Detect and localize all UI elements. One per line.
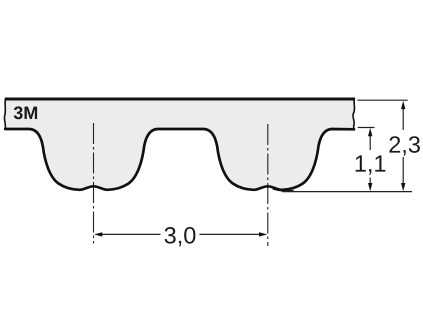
top extension line [357, 99, 407, 101]
arrow up 2,3 [401, 101, 405, 109]
belt tooth profile outline [5, 129, 354, 190]
tooth 2 tip merge into extension line [274, 189, 294, 191]
dimension line 3,0 right segment [200, 233, 262, 235]
label 3,0 [165, 227, 196, 246]
centerline tooth 1 [93, 123, 95, 244]
label 2,3 [389, 136, 419, 155]
arrow down 1,1 [368, 183, 372, 191]
land extension line [358, 127, 375, 129]
arrow right 3,0 [259, 232, 267, 236]
dimension line 1,1 lower segment [369, 178, 371, 187]
dimension line 3,0 left segment [100, 233, 161, 235]
arrow down 2,3 [401, 183, 405, 191]
belt body fill (3M HTD profile cross-section) [5, 99, 354, 190]
arrow left 3,0 [94, 232, 102, 236]
dimension line 1,1 upper segment [369, 133, 371, 150]
right break edge (wavy cut) [353, 98, 355, 130]
label 1,1 [356, 155, 386, 174]
dimension line 2,3 upper segment [402, 106, 404, 130]
belt top surface line [6, 98, 355, 101]
tooth tip extension line [282, 191, 412, 193]
centerline tooth 2 [267, 124, 269, 246]
left break edge (wavy cut) [4, 98, 5, 129]
dimension line 2,3 lower segment [402, 157, 404, 186]
label 3M [14, 106, 37, 119]
arrow up 1,1 [368, 128, 372, 136]
